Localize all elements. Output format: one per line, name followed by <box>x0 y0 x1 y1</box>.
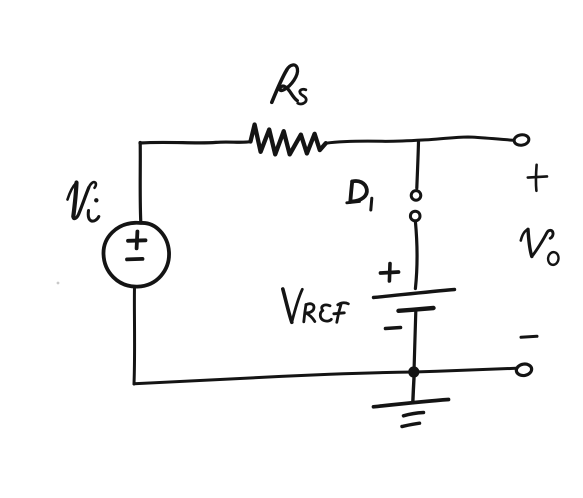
wire bottom rail <box>134 368 516 384</box>
wire source top (left vertical) <box>139 143 143 223</box>
faint smudge dot <box>57 282 60 285</box>
wire D1 branch upper <box>417 142 419 189</box>
ground symbol <box>374 400 449 427</box>
wire D1 lower terminal to battery <box>415 222 417 289</box>
label Rs <box>272 65 306 104</box>
battery minus sign <box>386 328 401 329</box>
source plus sign <box>128 232 146 249</box>
wire junction to ground <box>413 378 414 403</box>
label VREF <box>283 289 349 322</box>
label + (output polarity top) <box>528 165 547 191</box>
junction node dot <box>408 366 419 377</box>
resistor Rs zigzag <box>251 125 326 155</box>
label − (output polarity bottom) <box>521 336 537 337</box>
label Vo <box>521 229 560 265</box>
battery VREF negative plate <box>399 308 434 311</box>
wire battery to junction <box>414 312 416 372</box>
battery plus sign <box>381 264 399 282</box>
diode D1 terminal circles <box>410 191 420 221</box>
wire source bottom <box>133 287 137 384</box>
terminal + output <box>513 134 529 146</box>
terminal − output <box>515 363 532 377</box>
label D1 <box>347 181 372 210</box>
label Vi <box>68 182 99 221</box>
wire top rail right (resistor to + terminal) <box>326 137 514 143</box>
source minus sign <box>127 257 143 261</box>
battery VREF positive plate <box>374 290 455 298</box>
voltage source Vi circle <box>103 223 169 287</box>
wire top rail left (source corner to resistor) <box>140 142 251 144</box>
